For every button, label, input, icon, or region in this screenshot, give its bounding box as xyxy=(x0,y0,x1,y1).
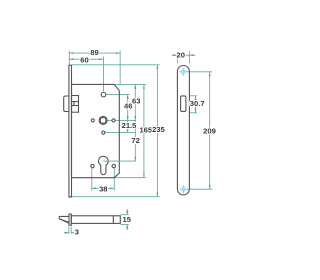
arrow 15 bottom xyxy=(126,225,128,229)
dimension 60 line xyxy=(69,58,103,60)
extension line spindle center xyxy=(107,119,136,121)
latch side view extension 15 bottom xyxy=(121,224,129,226)
svg-text:21.5: 21.5 xyxy=(122,121,138,130)
spindle left screw hole xyxy=(91,119,94,122)
extension line case bottom xyxy=(115,177,147,179)
faceplate side view extension 209 bottom xyxy=(187,188,212,190)
lower hole xyxy=(102,131,105,134)
latch side view extension 15 top xyxy=(121,214,129,216)
svg-text:63: 63 xyxy=(132,97,140,106)
latch body line lower xyxy=(72,105,79,107)
cylinder left fixing hole xyxy=(91,164,94,167)
dimension 20 line xyxy=(172,54,196,56)
svg-text:89: 89 xyxy=(90,48,98,57)
arrow 3 left xyxy=(65,232,69,234)
extension line 89 right xyxy=(119,51,121,84)
extension line faceplate top xyxy=(72,64,160,66)
top hole xyxy=(101,92,106,97)
faceplate side view outline xyxy=(177,66,189,195)
svg-text:30.7: 30.7 xyxy=(190,99,205,108)
faceplate latch cutout xyxy=(181,96,186,112)
dimension 15 top tail xyxy=(126,209,128,215)
faceplate side view extension 209 top xyxy=(187,71,212,73)
spindle right screw hole xyxy=(112,119,115,122)
extension line 38 left xyxy=(91,169,93,191)
dimension 209 line xyxy=(209,72,211,189)
extension 20 right xyxy=(188,52,190,64)
spindle hub circle xyxy=(99,116,107,124)
latch bolt head front view xyxy=(64,96,69,112)
extension line lower hole center xyxy=(105,132,136,134)
svg-text:38: 38 xyxy=(99,184,107,193)
latch side view bevel head xyxy=(59,216,69,223)
faceplate bar front view xyxy=(69,65,72,197)
dimension 38 line xyxy=(92,187,115,189)
cylinder right fixing hole xyxy=(112,164,115,167)
dimension 89 line xyxy=(69,52,120,54)
extension 3 right xyxy=(70,226,72,233)
dimension 63 line xyxy=(134,84,136,120)
extension 3 left xyxy=(68,226,70,233)
extension 30.7 top xyxy=(190,95,197,97)
svg-text:165: 165 xyxy=(139,126,152,135)
svg-text:3: 3 xyxy=(75,228,79,237)
extension 30.7 bottom xyxy=(190,112,197,114)
dimension 46 line xyxy=(127,95,129,121)
extension line 38 right xyxy=(113,169,115,191)
arrow 15 top xyxy=(126,211,128,215)
screw mark top xyxy=(179,68,187,76)
dimension 165 line xyxy=(143,84,145,177)
dimension 30.7 line xyxy=(195,96,197,113)
latch body line upper xyxy=(72,101,79,103)
extension line left edge xyxy=(68,51,70,65)
dimension 72 line xyxy=(134,120,136,161)
svg-text:60: 60 xyxy=(80,56,88,65)
arrow 20 left xyxy=(173,54,177,56)
lock case outline xyxy=(72,84,120,177)
screw mark bottom xyxy=(179,185,187,193)
svg-text:72: 72 xyxy=(131,136,139,145)
svg-text:20: 20 xyxy=(176,50,184,59)
arrow 3 right xyxy=(71,232,75,234)
extension line top hole center xyxy=(107,94,130,96)
extension line cylinder center xyxy=(103,160,135,162)
dimension 21.5 line xyxy=(127,120,129,132)
extension line case top xyxy=(115,83,147,85)
extension line 60 right to top hole xyxy=(103,57,105,92)
svg-text:209: 209 xyxy=(203,127,216,136)
latch side view faceplate bar xyxy=(69,214,71,225)
euro cylinder keyhole xyxy=(98,156,108,174)
spindle square xyxy=(100,118,105,123)
svg-text:235: 235 xyxy=(152,125,165,134)
extension 20 left xyxy=(176,52,178,64)
latch head inner bevel line xyxy=(60,219,69,222)
dimension 3 right tail xyxy=(71,232,74,234)
dimension 3 left tail xyxy=(64,232,69,234)
svg-text:15: 15 xyxy=(122,215,131,224)
latch body divider xyxy=(73,102,75,106)
latch bolt body front view xyxy=(72,96,79,113)
arrow 20 right xyxy=(189,54,193,56)
latch side view body xyxy=(71,216,120,224)
extension line faceplate bottom xyxy=(69,196,160,198)
dimension 235 line xyxy=(156,65,158,197)
dimension 15 bottom tail xyxy=(126,225,128,231)
latch side view body divider xyxy=(112,216,114,224)
